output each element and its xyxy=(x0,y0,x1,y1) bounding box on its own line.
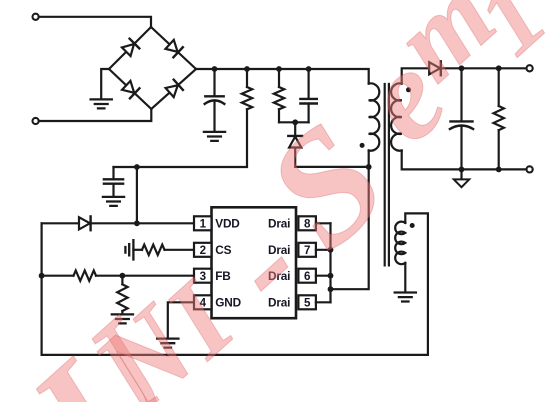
node drain pin 7 xyxy=(328,247,334,253)
wire FB line left xyxy=(42,275,74,277)
wire C1 to ground xyxy=(213,102,215,132)
wire HV rail to R1 xyxy=(246,69,248,87)
diode D2 (bridge top-right) xyxy=(165,39,183,57)
resistor R5 (FB lower divider) xyxy=(117,284,127,311)
svg-text:FB: FB xyxy=(215,269,230,283)
wire C4 to ground xyxy=(112,184,114,197)
capacitor C1 (bulk electrolytic) xyxy=(205,95,223,97)
transformer T1 auxiliary winding xyxy=(395,222,405,265)
svg-text:3: 3 xyxy=(200,270,207,283)
wire output + node to C3 xyxy=(460,68,462,121)
wire FB node to R5 xyxy=(121,276,123,285)
svg-text:Drai: Drai xyxy=(268,217,290,231)
wire secondary top to output diode xyxy=(402,68,430,83)
wire D5 to primary bottom xyxy=(295,148,369,167)
wire R6 to pin 2 xyxy=(165,249,196,251)
ground (bridge negative) xyxy=(91,99,112,108)
resistor R2 (clamp) xyxy=(274,87,284,109)
pin box 3 xyxy=(194,269,212,283)
wire left vertical xyxy=(40,223,42,355)
phase dot secondary xyxy=(406,87,411,92)
resistor R6 (current sense) xyxy=(142,245,165,255)
wire clamp bottom xyxy=(279,121,309,123)
wire J2 to bridge bottom xyxy=(39,109,152,121)
node FB tap xyxy=(39,273,45,279)
node drain takeoff xyxy=(328,286,334,292)
bridge edge bottom-left xyxy=(109,69,151,109)
op-amp U1 controller body xyxy=(212,207,297,318)
wire HV rail to R2 xyxy=(278,69,280,87)
wire C2 to clamp node xyxy=(308,104,310,123)
resistor R3 (load) xyxy=(494,106,504,130)
diode D7 (VDD rectifier) xyxy=(79,216,91,230)
pin box 1 xyxy=(194,216,212,230)
wire pin 5 to drain bus xyxy=(316,301,331,303)
wire pin 6 to drain bus xyxy=(316,275,331,277)
terminal J1 (AC line input) xyxy=(33,14,39,20)
wire bottom rail xyxy=(42,354,428,356)
pin box 7 xyxy=(298,243,316,257)
diode D4 (bridge bottom-right) xyxy=(165,80,183,98)
wire output rail xyxy=(441,67,527,69)
node clamp diode xyxy=(292,119,298,125)
wire HV rail (bridge + output) xyxy=(196,69,369,84)
capacitor C2 (clamp) xyxy=(300,99,316,104)
diode D5 (clamp) xyxy=(288,136,302,148)
node startup resistor xyxy=(244,66,250,72)
node drain pin 6 xyxy=(328,273,334,279)
bridge edge bottom-right xyxy=(151,69,196,109)
svg-text:7: 7 xyxy=(304,244,310,257)
wire VDD line left xyxy=(42,222,79,224)
phase dot auxiliary xyxy=(410,223,415,228)
ground (auxiliary winding) xyxy=(395,293,416,302)
bridge edge top-left xyxy=(109,27,151,69)
capacitor C3 (output electrolytic) xyxy=(451,120,473,122)
pin box 5 xyxy=(298,295,316,309)
wire pin 8 to drain bus xyxy=(316,222,331,224)
wire pin 7 to drain bus xyxy=(316,249,331,251)
wire HV rail to C1 xyxy=(213,69,215,96)
diode D1 (bridge top-left) xyxy=(121,39,139,57)
resistor R1 (startup) xyxy=(242,87,252,109)
node VDD feed xyxy=(134,164,140,170)
pin box 6 xyxy=(298,269,316,283)
node clamp resistor xyxy=(276,66,282,72)
node bulk cap xyxy=(212,66,218,72)
ground (IC GND) xyxy=(157,339,178,348)
wire primary bottom to drain bus xyxy=(331,151,369,290)
wire pin 4 to ground xyxy=(168,302,195,338)
svg-text:GND: GND xyxy=(215,296,241,310)
bridge edge top-right xyxy=(151,27,196,69)
wire aux top lead xyxy=(405,213,428,355)
wire R3 to return xyxy=(498,130,500,169)
wire bridge left vertex to ground xyxy=(101,69,109,99)
wire R5 to ground xyxy=(121,311,123,314)
pin box 8 xyxy=(298,216,316,230)
diode D3 (bridge bottom-left) xyxy=(122,80,140,98)
svg-text:2: 2 xyxy=(200,244,206,257)
node output cap xyxy=(459,65,465,71)
terminal J4 (output -) xyxy=(527,166,533,172)
node return load xyxy=(496,167,502,173)
node primary bottom / drain xyxy=(366,164,372,170)
node clamp cap xyxy=(306,66,312,72)
wire to C4 xyxy=(112,167,114,179)
transformer T1 core xyxy=(385,84,389,265)
wire VDD line right xyxy=(91,222,195,224)
wire drain bus vertical xyxy=(329,223,331,302)
wire VDD feed down to VDD line xyxy=(136,167,138,223)
wire R1 down and left to VDD cap node xyxy=(114,109,248,167)
wire aux bottom to ground xyxy=(404,263,406,292)
phase dot primary xyxy=(360,143,365,148)
terminal J3 (output +) xyxy=(527,65,533,71)
capacitor C4 (VDD bypass) xyxy=(104,179,123,183)
wire HV rail to C2 xyxy=(308,69,310,99)
signal ground (output) xyxy=(454,179,469,187)
node FB divider xyxy=(120,273,126,279)
ground (FB divider) xyxy=(112,314,133,323)
wire J1 to bridge top xyxy=(39,17,151,28)
wire C3 to return xyxy=(460,127,462,170)
wire secondary bottom to output return xyxy=(402,151,527,170)
diode D6 (output rectifier) xyxy=(429,61,441,75)
transformer T1 primary winding xyxy=(369,83,380,150)
wire R4 to pin 3 xyxy=(96,275,195,277)
ground (current sense, rotated) xyxy=(125,240,133,259)
pin box 2 xyxy=(194,243,212,257)
node return cap xyxy=(459,167,465,173)
ground (C4) xyxy=(103,197,124,206)
wire output + to R3 xyxy=(498,68,500,106)
wire R2 to clamp node xyxy=(278,109,280,122)
transformer T1 secondary winding xyxy=(391,83,402,150)
node output load xyxy=(496,65,502,71)
pin box 4 xyxy=(194,295,212,309)
ground (C1) xyxy=(204,132,225,141)
wire CS ground to R6 xyxy=(133,249,142,251)
terminal J2 (AC neutral input) xyxy=(33,118,39,124)
wire clamp node to D5 xyxy=(294,122,296,136)
wire return to signal ground xyxy=(460,169,462,179)
node VDD xyxy=(134,220,140,226)
resistor R4 (FB upper divider) xyxy=(74,271,97,281)
